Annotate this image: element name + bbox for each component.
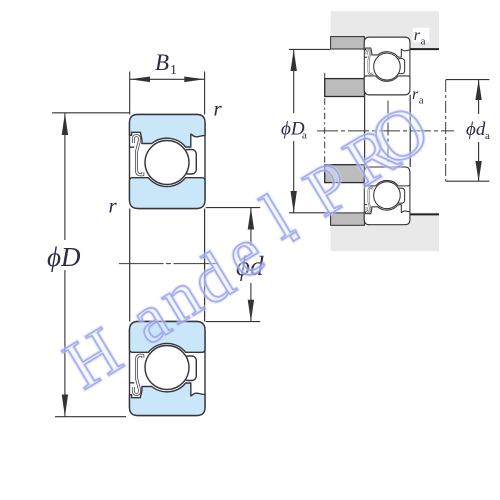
label ra top (white box) [413,28,429,43]
svg-text:B: B [155,50,169,75]
svg-text:r: r [109,194,118,218]
bearing section right lower [364,167,410,225]
left centerline [119,263,217,265]
phi D dimension line [64,113,66,240]
shaft side line right [409,95,411,167]
svg-text:H: H [52,313,134,404]
svg-text:ϕd: ϕd [466,119,486,140]
right diagram vertical centerline [387,101,389,163]
phi D extension bottom [55,416,126,418]
housing bottom shoulder dark [331,213,365,225]
svg-text:a: a [302,130,307,142]
B1 extension lines [129,72,131,115]
phi da arrowheads [475,80,481,100]
bearing section right upper [364,37,410,95]
label phi da [465,119,492,139]
housing top light block [331,11,439,49]
shaft step dash-dot [324,98,326,163]
housing top face thick line right [410,48,439,50]
svg-text:ϕD: ϕD [47,242,81,272]
shaft shoulder upper block [325,79,365,97]
svg-text:1: 1 [170,63,177,78]
bore lines between sections [129,209,131,322]
phi da extension bottom [446,180,490,182]
housing top shoulder dark [331,37,365,49]
svg-text:l: l [250,178,305,253]
bearing section left upper [130,115,206,209]
phi da extension top [446,79,490,81]
phi Da arrowheads [291,49,297,71]
svg-text:r: r [214,97,223,121]
housing bottom light block [331,213,439,252]
phi Da extension bottom [289,212,330,214]
shoulder diameter dash-dot line right [445,80,447,181]
phi d dimension line [250,208,252,246]
phi d extension top [206,207,261,209]
phi D extension top [52,112,130,114]
bearing section left lower [130,322,206,416]
svg-text:a: a [485,130,490,142]
phi d extension bottom [206,321,261,323]
right diagram horizontal centerline [317,130,454,132]
phi Da extension top [289,48,330,50]
phi Da dimension line [293,49,295,113]
shaft side line left [364,95,366,167]
shaft shoulder lower block [325,165,365,183]
phi da dimension line [478,80,480,114]
housing bottom face thick line right [410,213,439,215]
svg-text:a: a [421,36,426,48]
label phi Da [280,118,308,139]
B1 dimension arrow [130,78,204,80]
svg-text:a: a [419,95,424,107]
watermark Handel.PRO [52,90,442,403]
